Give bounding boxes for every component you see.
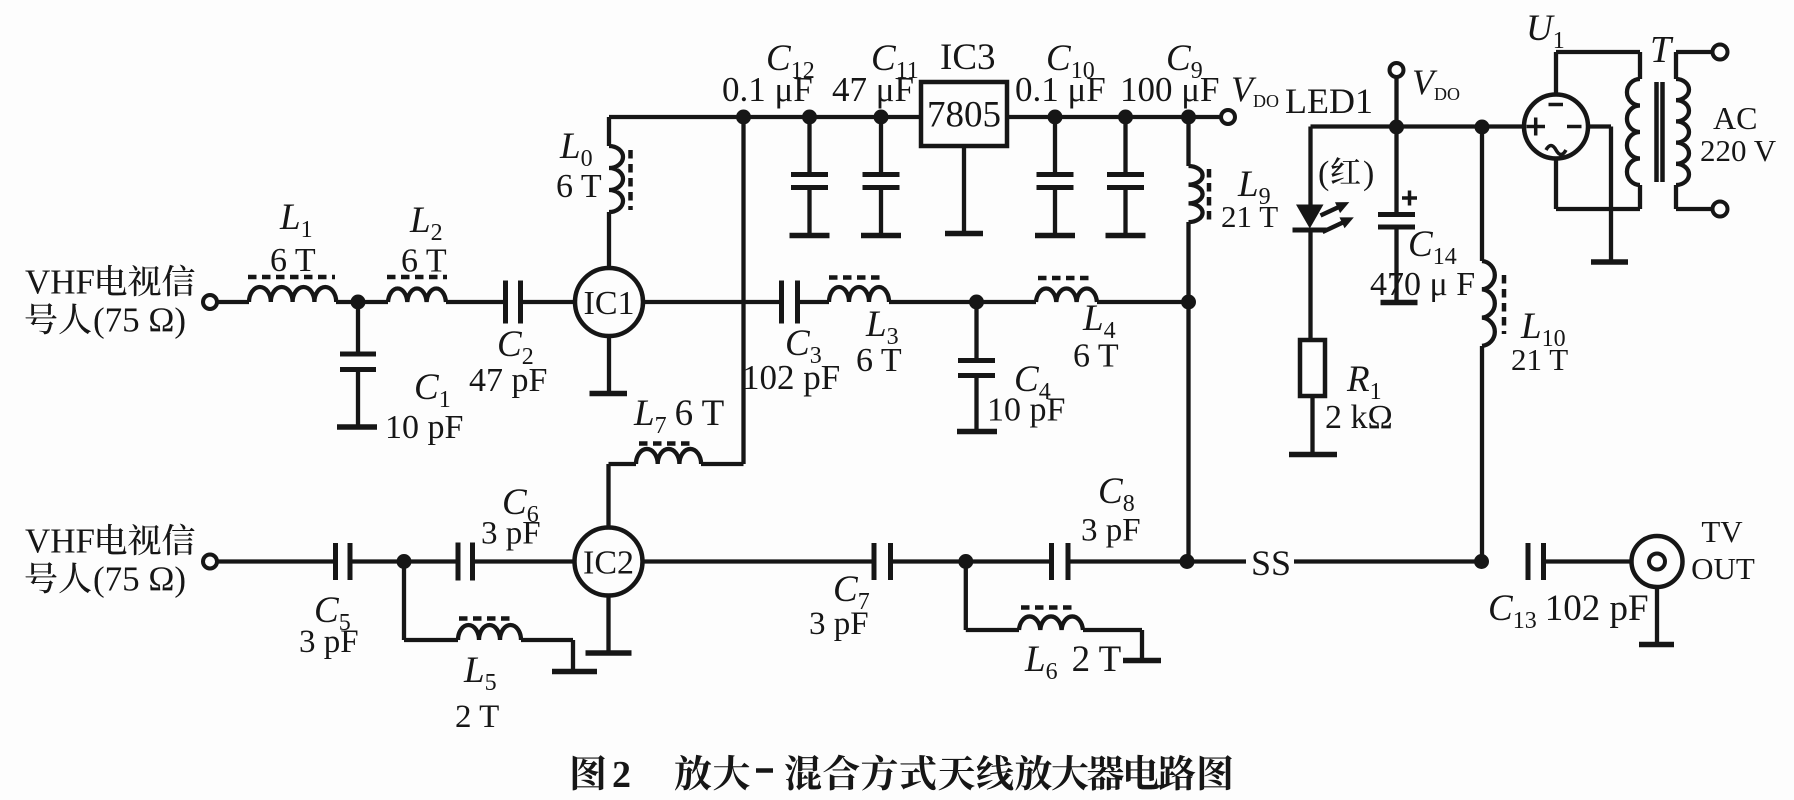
svg-text:21 T: 21 T [1511,342,1568,377]
svg-text:IC1: IC1 [584,285,635,322]
svg-text:VHF: VHF [25,522,95,561]
svg-text:IC3: IC3 [940,37,996,78]
svg-text:0.1 μF: 0.1 μF [1015,70,1106,109]
svg-text:2 T: 2 T [455,699,499,735]
svg-text:10 pF: 10 pF [385,409,463,446]
svg-text:102 pF: 102 pF [742,358,840,397]
svg-text:10 pF: 10 pF [987,392,1065,429]
svg-text:(75 Ω): (75 Ω) [93,301,186,340]
svg-text:3 pF: 3 pF [299,624,359,660]
svg-text:47 μF: 47 μF [832,70,914,109]
svg-text:SS: SS [1251,543,1291,583]
svg-text:(75 Ω): (75 Ω) [93,560,186,599]
svg-text:6 T: 6 T [270,242,316,279]
svg-text:470 μ F: 470 μ F [1370,266,1475,303]
svg-text:): ) [1363,155,1374,192]
svg-text:6 T: 6 T [401,243,447,280]
svg-text:3 pF: 3 pF [1081,513,1141,549]
svg-text:0.1 μF: 0.1 μF [722,70,813,109]
svg-text:21 T: 21 T [1221,199,1278,234]
svg-text:100 μF: 100 μF [1120,70,1219,109]
svg-text:47 pF: 47 pF [469,362,547,399]
svg-text:LED1: LED1 [1285,81,1373,121]
svg-text:7805: 7805 [927,95,1001,136]
svg-text:L62 T: L62 T [1024,639,1121,685]
svg-text:T: T [1650,29,1674,71]
svg-text:L76 T: L76 T [633,393,724,439]
svg-text:3 pF: 3 pF [481,516,541,552]
svg-text:OUT: OUT [1691,551,1755,586]
svg-text:AC: AC [1713,100,1757,136]
svg-text:VHF: VHF [25,263,95,302]
svg-text:2 kΩ: 2 kΩ [1325,399,1393,436]
svg-text:C13102 pF: C13102 pF [1488,588,1649,634]
svg-text:2: 2 [612,754,631,796]
svg-text:(: ( [1318,155,1329,192]
svg-text:6 T: 6 T [856,342,902,379]
svg-text:3 pF: 3 pF [809,606,869,642]
svg-text:220 V: 220 V [1700,133,1777,168]
svg-text:IC2: IC2 [583,545,634,582]
svg-text:TV: TV [1701,514,1743,549]
svg-text:6 T: 6 T [556,168,602,205]
svg-text:6 T: 6 T [1073,338,1119,375]
